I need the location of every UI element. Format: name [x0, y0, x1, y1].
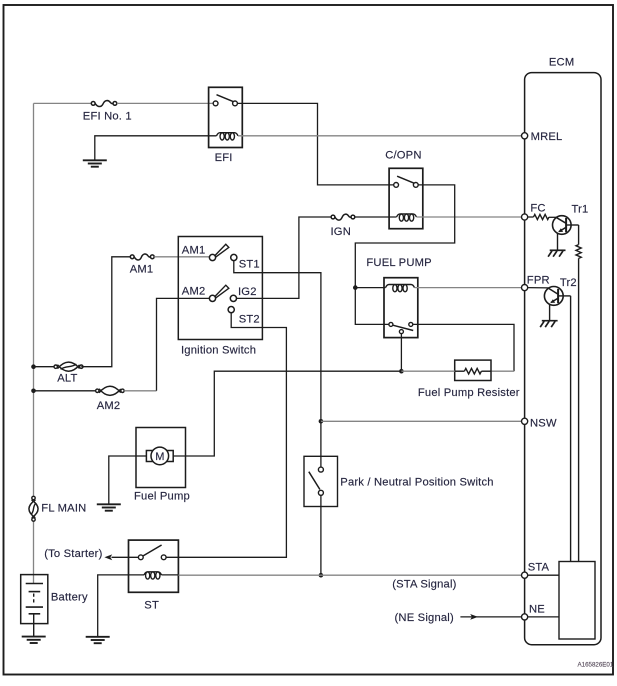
relay C/OPN switch lever	[397, 176, 414, 183]
svg-text:EFI: EFI	[215, 152, 233, 164]
fuse IGN	[335, 214, 351, 220]
resistor: Tr1 collector load	[576, 245, 581, 259]
wire: bus to ALT fusible link	[34, 366, 56, 368]
ground: Tr1 emitter	[550, 249, 566, 251]
svg-text:A165826E01: A165826E01	[578, 662, 614, 669]
relay FUEL PUMP switch contacts	[389, 322, 393, 326]
svg-text:FL MAIN: FL MAIN	[41, 503, 86, 515]
relay ST switch contacts	[138, 555, 143, 560]
wire: NE pin to logic box	[528, 616, 559, 618]
relay EFI switch contacts	[213, 101, 218, 106]
svg-text:EFI No. 1: EFI No. 1	[83, 111, 132, 123]
wire: ST2 to ST relay contact	[166, 313, 286, 558]
arrow: NE signal	[470, 614, 478, 620]
wire: Tr2 collector to ECM logic box	[558, 295, 571, 297]
wire: IGN fuse to C/OPN coil	[355, 216, 397, 218]
relay C/OPN coil	[397, 214, 417, 217]
svg-text:NSW: NSW	[530, 418, 557, 430]
svg-text:AM2: AM2	[182, 286, 206, 298]
wire: park/neutral switch to STA line	[320, 495, 322, 575]
svg-text:Park / Neutral Position Switch: Park / Neutral Position Switch	[340, 477, 493, 489]
fusible link ALT	[57, 362, 79, 369]
relay C/OPN switch contacts	[394, 183, 399, 188]
wire: battery positive bus (lower, FL MAIN to battery)	[33, 521, 35, 583]
wire: battery positive bus (upper, B+ to fusible links)	[33, 103, 35, 496]
relay FUEL PUMP box	[384, 278, 418, 338]
relay ST coil	[144, 572, 162, 575]
ground: ST relay coil	[86, 636, 110, 638]
wire: AM1 fuse to ignition switch AM1	[154, 256, 209, 258]
svg-text:ST: ST	[144, 600, 159, 612]
ignition switch AM1 contact	[209, 254, 215, 260]
wire: motor leads	[136, 455, 152, 457]
fusible link FL MAIN	[29, 500, 36, 518]
ignition switch box	[178, 237, 262, 340]
svg-text:AM2: AM2	[97, 400, 121, 412]
svg-text:(To Starter): (To Starter)	[44, 548, 102, 560]
battery plates	[26, 583, 43, 585]
wire: FP relay common contact down to motor line	[400, 334, 402, 372]
wire: bus to AM2 fusible link	[34, 390, 98, 392]
ECM pin FPR	[522, 285, 528, 291]
svg-text:MREL: MREL	[531, 131, 563, 143]
wire: resistor to riser	[491, 370, 514, 372]
transistor Tr1	[553, 216, 572, 235]
wire: ST relay coil to ground	[98, 575, 144, 637]
svg-text:C/OPN: C/OPN	[385, 150, 421, 162]
battery B1 box	[21, 575, 48, 624]
wire: FPR pin to Tr2 base	[528, 287, 549, 289]
motor M terminals	[146, 451, 152, 462]
ground: fuel pump	[97, 503, 121, 505]
junction: bus to AM2	[31, 389, 36, 394]
svg-text:Fuel Pump Resister: Fuel Pump Resister	[418, 387, 520, 399]
wire: FPR (FUEL PUMP relay coil to ECM)	[415, 287, 522, 289]
fuel pump box	[136, 428, 186, 488]
ignition switch IG2 contact	[230, 295, 236, 301]
fuel pump resister box	[455, 360, 491, 380]
relay ST box	[129, 540, 179, 592]
svg-text:FC: FC	[530, 203, 545, 215]
svg-text:STA: STA	[528, 562, 550, 574]
park / neutral position switch lever	[309, 472, 320, 490]
svg-text:Tr1: Tr1	[572, 204, 589, 216]
svg-text:ALT: ALT	[57, 373, 77, 385]
wire: Tr1 emitter to ground	[557, 233, 559, 250]
svg-text:Fuel Pump: Fuel Pump	[134, 491, 190, 503]
ECM pin NSW	[522, 418, 528, 424]
junction: NSW tap	[319, 419, 324, 424]
ignition switch AM1 lever	[214, 244, 228, 257]
wire: EFI relay coil to ground	[95, 136, 217, 160]
wire: C/OPN output to FUEL PUMP relay	[355, 185, 454, 325]
relay FUEL PUMP coil	[386, 285, 415, 288]
ECM pin STA	[522, 572, 528, 578]
resistor: fuel pump resister element	[455, 370, 465, 372]
motor M (fuel pump)	[151, 447, 169, 465]
svg-text:FUEL PUMP: FUEL PUMP	[366, 257, 431, 269]
junction: C/OPN output to FP coil	[353, 285, 358, 290]
wire: Tr1 resistor to ECM logic box	[578, 258, 580, 561]
fusible link AM2	[99, 386, 121, 393]
wire: EFI relay output to C/OPN relay contact	[237, 103, 393, 184]
junction: STA line	[319, 573, 324, 578]
svg-text:ECM: ECM	[549, 56, 574, 68]
junction: bus to ALT	[31, 364, 36, 369]
wire: junction to fuel pump resister	[401, 370, 454, 372]
svg-text:IG2: IG2	[238, 286, 257, 298]
wire: junction to FUEL PUMP relay coil	[355, 287, 385, 289]
wire: Tr2 emitter to ground	[549, 304, 551, 321]
fuse AM1	[134, 254, 150, 260]
park / neutral position switch contacts	[318, 467, 323, 472]
wire: ST relay to starter	[112, 556, 139, 558]
park / neutral position switch box	[304, 456, 338, 506]
wire: AM2 riser to ignition switch AM2	[157, 298, 210, 390]
wire: EFI No.1 fuse to EFI relay contact	[117, 102, 213, 104]
transistor Tr2	[544, 287, 563, 306]
relay ST switch lever	[143, 545, 162, 556]
svg-text:AM1: AM1	[182, 245, 206, 257]
wire: ALT to AM1 fuse	[81, 257, 130, 367]
ECM pin NE	[522, 614, 528, 620]
ignition switch AM2 contact	[209, 295, 215, 301]
wire: fuel pump motor to relay junction	[186, 371, 402, 456]
svg-text:IGN: IGN	[331, 226, 352, 238]
wire: STA signal (ST coil to ECM)	[162, 574, 179, 576]
wire: FC (C/OPN coil to ECM)	[417, 216, 522, 218]
wire: ignition IG2 to IGN fuse	[236, 217, 331, 298]
svg-text:AM1: AM1	[130, 264, 154, 276]
relay FUEL PUMP switch lever	[393, 325, 413, 330]
wire: ST1 to park/neutral switch	[234, 261, 321, 467]
wire: Tr1 collector	[566, 224, 579, 226]
ignition switch ST1 contact	[231, 254, 237, 260]
ECM pin FC	[522, 214, 528, 220]
wire: MREL (EFI relay coil to ECM)	[238, 135, 522, 137]
ground: battery negative	[22, 636, 46, 638]
ECM pin MREL	[522, 133, 528, 139]
relay C/OPN box	[389, 168, 423, 228]
svg-text:(STA Signal): (STA Signal)	[392, 579, 456, 591]
ground: Tr2 emitter	[542, 320, 558, 322]
wire: NE signal input	[460, 616, 521, 618]
svg-text:ST2: ST2	[239, 314, 260, 326]
svg-text:ST1: ST1	[239, 259, 260, 271]
wire: FP relay NC contact to resistor riser	[413, 324, 514, 371]
svg-text:Ignition Switch: Ignition Switch	[181, 345, 256, 357]
fuse EFI No. 1	[95, 101, 113, 107]
relay EFI box	[209, 87, 243, 147]
wire: NSW (to ECM)	[321, 420, 522, 422]
ground: EFI relay coil	[83, 159, 107, 161]
wire: fuel pump motor to ground	[109, 456, 136, 504]
svg-text:NE: NE	[529, 604, 545, 616]
relay EFI coil	[217, 133, 239, 136]
ECM box	[525, 73, 601, 645]
svg-text:FPR: FPR	[527, 275, 550, 287]
svg-text:(NE Signal): (NE Signal)	[395, 612, 454, 624]
wire: bus to EFI No.1 fuse	[34, 102, 92, 104]
ignition switch ST2 contact	[228, 307, 234, 313]
wire: STA pin to logic box	[528, 574, 559, 576]
ignition switch AM2 lever	[214, 285, 228, 298]
arrow: to starter	[104, 554, 112, 560]
junction: FP relay common on motor line	[399, 369, 404, 374]
svg-text:Battery: Battery	[51, 591, 88, 603]
ECM logic box	[559, 562, 595, 640]
relay EFI switch lever	[217, 95, 234, 102]
svg-text:Tr2: Tr2	[560, 277, 577, 289]
wire: AM2 fusible link to riser	[124, 390, 156, 392]
svg-text:M: M	[155, 451, 164, 463]
resistor: Tr1 base (from FC pin)	[528, 216, 534, 218]
